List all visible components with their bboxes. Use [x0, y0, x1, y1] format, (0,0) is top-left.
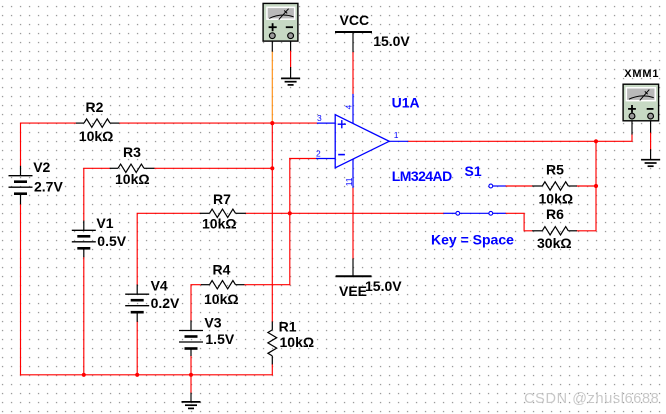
junction node A (orange/R2 net)	[270, 121, 274, 125]
top multimeter body	[263, 3, 298, 41]
wire VEE stub to op-amp pin11	[352, 188, 354, 276]
wire vertical node A to node B to R1	[271, 123, 273, 321]
label V1	[96, 215, 113, 231]
multimeter XMM1 minus terminal	[648, 113, 654, 119]
label R4	[213, 261, 231, 277]
resistor R6	[532, 227, 577, 235]
wire switch throw1 to R5 left	[506, 185, 533, 187]
svg-text:0.5V: 0.5V	[97, 233, 126, 249]
top multimeter screen	[266, 7, 295, 20]
svg-text:15.0V: 15.0V	[373, 33, 410, 49]
wire orange multimeter probe down to node A	[271, 51, 273, 123]
resistor R4	[201, 281, 244, 289]
wire bus to ground symbol	[190, 375, 192, 402]
resistor R1 (vertical)	[268, 322, 277, 365]
switch S1 throw1 contact circle	[489, 184, 493, 188]
value 0.5V	[97, 233, 126, 249]
pin number 4	[344, 105, 354, 110]
pin number 3	[317, 113, 322, 123]
svg-text:10kΩ: 10kΩ	[204, 291, 239, 307]
battery V2	[9, 166, 33, 205]
label S1	[465, 163, 482, 179]
label VCC	[340, 12, 370, 28]
resistor R5	[532, 182, 577, 190]
value 10kΩ R7	[202, 216, 237, 232]
svg-text:1: 1	[394, 130, 399, 140]
wire V1 bottom to bus	[83, 257, 85, 375]
svg-text:0.2V: 0.2V	[151, 295, 180, 311]
battery V4	[125, 285, 149, 322]
label LM324AD	[392, 168, 452, 184]
switch S1 pole lead	[443, 212, 455, 214]
ground under top multimeter	[281, 78, 300, 85]
value 10kΩ R1	[280, 334, 315, 350]
svg-text:XMM1: XMM1	[624, 68, 659, 80]
value 10kΩ R4	[204, 291, 239, 307]
label U1A	[392, 94, 420, 110]
value 10kΩ R2	[79, 128, 114, 144]
svg-text:R5: R5	[546, 162, 564, 178]
wire R4 right to riser	[244, 284, 289, 286]
resistor R7	[200, 209, 246, 217]
wire V1 top corner to R3 left	[84, 168, 110, 220]
switch S1 throw1 lead	[493, 185, 506, 187]
label V4	[151, 277, 168, 293]
wire R2 right to op-amp pin3	[119, 122, 317, 124]
op-amp U1A triangle	[335, 115, 389, 168]
ground under XMM1	[641, 160, 660, 167]
wire V4 top corner to R7 left	[137, 213, 200, 284]
resistor R2	[76, 119, 120, 127]
battery V1	[72, 221, 96, 258]
wire R3 right to node B	[154, 167, 272, 169]
switch S1 throw2 contact circle	[489, 211, 493, 215]
value 0.2V	[151, 295, 180, 311]
junction node C (R7/R4/pin2 net)	[288, 211, 292, 215]
pin number 1	[394, 130, 399, 140]
wire V2 bottom to bus	[20, 204, 22, 374]
junction V4 bottom on bus	[135, 373, 139, 377]
svg-text:10kΩ: 10kΩ	[280, 334, 315, 350]
top multimeter plus marking	[269, 23, 277, 31]
svg-text:V4: V4	[151, 277, 168, 293]
label R1	[279, 318, 297, 334]
svg-text:R3: R3	[123, 144, 141, 160]
wire XMM1 minus terminal to ground	[650, 121, 652, 160]
op-amp pin 3 stub	[317, 122, 335, 124]
wire switch throw2 down to R6 left	[506, 213, 533, 231]
svg-text:10kΩ: 10kΩ	[539, 191, 574, 207]
label XMM1	[624, 68, 659, 80]
svg-text:CSDN @zhusl6688: CSDN @zhusl6688	[524, 391, 659, 407]
svg-text:4: 4	[344, 105, 354, 110]
top multimeter plus terminal	[269, 33, 275, 39]
value 10kΩ R3	[115, 171, 150, 187]
label R3	[123, 144, 141, 160]
pin number 11	[344, 177, 354, 186]
VCC power symbol	[335, 31, 372, 33]
switch S1 pole contact circle	[456, 211, 460, 215]
svg-text:11: 11	[344, 177, 354, 186]
op-amp pin 1 stub	[389, 140, 408, 142]
svg-text:R1: R1	[279, 318, 297, 334]
label R7	[213, 191, 231, 207]
wire XMM1 plus terminal stub	[631, 121, 633, 134]
svg-text:15.0V: 15.0V	[365, 278, 402, 294]
junction node B (R3 net)	[270, 166, 274, 170]
svg-text:3: 3	[317, 113, 322, 123]
VEE power symbol	[336, 275, 372, 277]
wire riser pin2 down to R4 right (through node C)	[289, 159, 291, 285]
value 10kΩ R5	[539, 191, 574, 207]
svg-text:10kΩ: 10kΩ	[202, 216, 237, 232]
value 2.7V	[34, 178, 63, 194]
wire R5 right to node D	[577, 185, 596, 187]
resistor R3	[110, 164, 155, 172]
multimeter XMM1 plus marking	[628, 105, 636, 113]
top multimeter minus marking	[286, 26, 293, 28]
svg-text:V3: V3	[204, 315, 221, 331]
value 1.5V	[205, 331, 234, 347]
junction node D (R5/R6 net)	[594, 184, 598, 188]
svg-text:10kΩ: 10kΩ	[115, 171, 150, 187]
ground at bottom bus	[182, 402, 201, 409]
pin number 2	[316, 148, 321, 158]
junction node E (output net)	[594, 139, 598, 143]
svg-text:R6: R6	[546, 206, 564, 222]
svg-text:LM324AD: LM324AD	[392, 168, 452, 184]
svg-text:VCC: VCC	[340, 12, 370, 28]
wire V3 bottom to bus	[190, 356, 192, 375]
svg-text:30kΩ: 30kΩ	[537, 235, 572, 251]
op-amp pin 2 stub	[316, 158, 335, 160]
wire V2 top to R2 left (net pin3)	[21, 123, 76, 166]
wire VCC stub	[352, 32, 354, 94]
wire R1 bottom to bus	[271, 364, 273, 374]
label V3	[204, 315, 221, 331]
label R6	[546, 206, 564, 222]
switch S1 throw2 lead	[493, 212, 506, 214]
value 15.0V (VEE)	[365, 278, 402, 294]
svg-text:R2: R2	[86, 99, 104, 115]
battery V3	[179, 320, 203, 356]
svg-text:R7: R7	[213, 191, 231, 207]
svg-text:10kΩ: 10kΩ	[79, 128, 114, 144]
wire R6 right up to node D and node E	[577, 141, 596, 231]
wire top multimeter minus terminal to ground	[290, 41, 292, 78]
label Key = Space	[431, 232, 514, 248]
label V2	[33, 159, 50, 175]
svg-text:VEE: VEE	[339, 283, 367, 299]
label VEE	[339, 283, 367, 299]
wire R7 right to switch pole	[246, 212, 444, 214]
svg-text:2.7V: 2.7V	[34, 178, 63, 194]
wire V3 top corner to R4 left	[191, 285, 201, 321]
svg-text:R4: R4	[213, 261, 231, 277]
junction V1 bottom on bus	[82, 373, 86, 377]
svg-text:V1: V1	[96, 215, 113, 231]
switch S1 blade	[460, 212, 489, 214]
watermark CSDN	[524, 391, 659, 407]
label R5	[546, 162, 564, 178]
svg-text:V2: V2	[33, 159, 50, 175]
junction V3 bottom on bus	[189, 373, 193, 377]
wire op-amp output pin1 to XMM1	[408, 134, 632, 141]
svg-text:U1A: U1A	[392, 94, 420, 110]
wire top multimeter plus terminal stub	[271, 41, 273, 51]
wire ground bus	[21, 374, 273, 376]
svg-text:1.5V: 1.5V	[205, 331, 234, 347]
wire op-amp pin2 to riser	[290, 158, 316, 160]
multimeter XMM1 minus marking	[647, 108, 654, 110]
svg-text:S1: S1	[465, 163, 482, 179]
op-amp pin 11 stub	[352, 160, 354, 188]
value 30kΩ R6	[537, 235, 572, 251]
svg-text:2: 2	[316, 148, 321, 158]
multimeter XMM1 screen	[626, 87, 656, 101]
op-amp pin 4 stub	[352, 94, 354, 124]
wire V4 bottom to bus	[136, 322, 138, 375]
top multimeter minus terminal	[288, 33, 294, 39]
label R2	[86, 99, 104, 115]
svg-text:Key = Space: Key = Space	[431, 232, 514, 248]
multimeter XMM1 plus terminal	[629, 113, 635, 119]
multimeter XMM1 body	[623, 84, 659, 121]
value 15.0V (VCC)	[373, 33, 410, 49]
